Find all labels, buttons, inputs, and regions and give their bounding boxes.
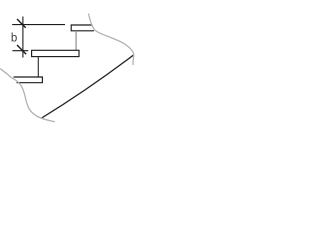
svg-text:b: b (11, 32, 17, 44)
tick bottom (17, 45, 26, 54)
riser line 2 (37, 57, 39, 77)
break line bottom left (0, 69, 55, 122)
riser line 1 (75, 31, 77, 51)
slope line (41, 55, 134, 119)
break line top right (89, 14, 134, 66)
tick top (17, 19, 26, 28)
extension line top (12, 24, 65, 26)
tread board 1 (71, 25, 94, 31)
extension line bottom (12, 50, 28, 52)
tread board 3 (14, 77, 43, 83)
dimension line b (vertical) (22, 17, 24, 58)
tread board 2 (32, 50, 79, 56)
